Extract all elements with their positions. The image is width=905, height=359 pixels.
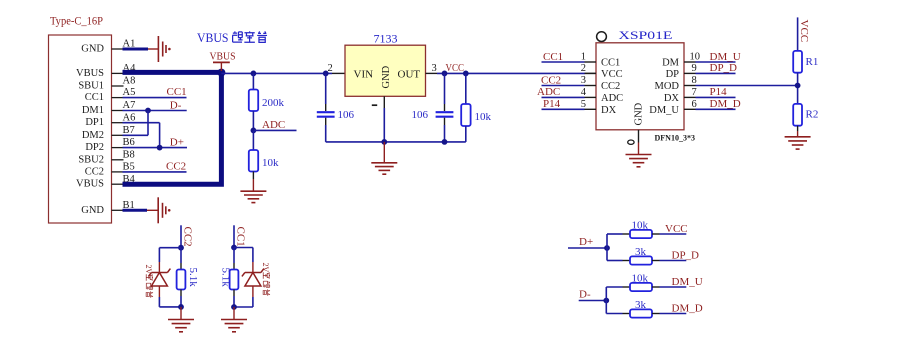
ground below CC1 bbox=[221, 320, 247, 332]
wire CC2 branch top bbox=[159, 247, 181, 249]
svg-text:P14: P14 bbox=[710, 86, 728, 98]
wire D- net: pin A7 junction to label bbox=[123, 110, 187, 112]
svg-text:5: 5 bbox=[581, 99, 586, 110]
svg-text:DM_U: DM_U bbox=[710, 51, 741, 63]
svg-text:3k: 3k bbox=[635, 299, 647, 311]
svg-text:D+: D+ bbox=[170, 136, 184, 148]
svg-text:D-: D- bbox=[579, 289, 591, 301]
svg-text:MOD: MOD bbox=[654, 81, 679, 92]
wire CC1 from A5 bbox=[123, 97, 187, 99]
wire D+ bbox=[568, 247, 607, 249]
wire D+ to 3k bbox=[607, 260, 630, 262]
wire VCC top right bbox=[797, 17, 799, 51]
svg-text:8: 8 bbox=[692, 75, 697, 86]
svg-text:7133: 7133 bbox=[374, 34, 398, 46]
pin 6 DM_U bbox=[649, 99, 697, 116]
pin GND B1 bbox=[81, 200, 135, 216]
svg-text:CC1: CC1 bbox=[167, 86, 187, 98]
junction VBUS/200k bbox=[251, 71, 257, 77]
wire CC2 branch bottom bbox=[159, 306, 181, 308]
pin 8 MOD bbox=[654, 75, 696, 92]
svg-text:CC1: CC1 bbox=[543, 51, 563, 63]
junction D+ bbox=[604, 245, 610, 251]
wire resistor R6 bottom bbox=[233, 290, 235, 308]
wire OUT to VCC rail bbox=[426, 72, 597, 74]
resistor 200k bbox=[249, 90, 258, 112]
junction CC2 bottom bbox=[178, 304, 184, 310]
svg-text:GND: GND bbox=[381, 65, 392, 88]
wire A1 to ground bbox=[148, 48, 158, 50]
junction CC1 bottom bbox=[231, 304, 237, 310]
wire CC2 from B5 bbox=[123, 171, 187, 173]
ground below XSP01E bbox=[626, 155, 652, 167]
wire B6 D+ bbox=[123, 147, 188, 149]
svg-text:DFN10_3*3: DFN10_3*3 bbox=[655, 134, 695, 143]
svg-text:DP_D: DP_D bbox=[710, 62, 738, 74]
zener D2 2V bbox=[148, 269, 170, 286]
wire CC1 branch bottom bbox=[234, 306, 253, 308]
svg-text:2V: 2V bbox=[261, 263, 270, 273]
capacitor C1 106 (input) bbox=[317, 112, 335, 117]
svg-text:GND: GND bbox=[81, 205, 104, 216]
junction on VBUS bus bbox=[217, 69, 225, 77]
pin 10 DM bbox=[662, 52, 700, 69]
svg-text:DP1: DP1 bbox=[85, 117, 104, 128]
svg-text:VCC: VCC bbox=[601, 69, 623, 80]
ground at A1 (rotated) bbox=[158, 36, 170, 62]
svg-text:SBU2: SBU2 bbox=[78, 154, 104, 165]
junction B6 D+ bbox=[157, 145, 163, 151]
svg-text:CC1: CC1 bbox=[601, 58, 620, 69]
resistor 10k (D+ pullup) bbox=[630, 230, 652, 238]
wire VBUS to 200k bbox=[252, 73, 254, 89]
junction output resistor bbox=[463, 71, 469, 77]
svg-text:VBUS: VBUS bbox=[210, 50, 236, 62]
svg-text:A7: A7 bbox=[123, 100, 136, 111]
pin 2 VCC bbox=[581, 63, 623, 80]
pin DP2 B6 bbox=[85, 137, 134, 153]
svg-text:106: 106 bbox=[338, 109, 355, 121]
wire P14 label pin5 bbox=[542, 108, 585, 110]
svg-text:DP2: DP2 bbox=[85, 142, 104, 153]
pin 7 DX bbox=[664, 87, 697, 104]
power port VBUS bbox=[210, 50, 236, 71]
svg-text:A6: A6 bbox=[123, 112, 136, 123]
wire 10k to ground bbox=[252, 172, 254, 180]
wire 200k to ADC node bbox=[252, 111, 254, 130]
wire zener D2 bottom bbox=[158, 286, 160, 307]
svg-text:200k: 200k bbox=[262, 97, 285, 109]
resistor R1 bbox=[793, 51, 802, 73]
wire ADC stub bbox=[253, 129, 296, 131]
svg-text:D+: D+ bbox=[579, 236, 593, 248]
pin CC1 A5 bbox=[85, 87, 136, 103]
junction D- bbox=[603, 298, 609, 304]
svg-text:B8: B8 bbox=[123, 149, 135, 160]
svg-text:GND: GND bbox=[81, 44, 104, 55]
wire thick GND B1 bbox=[123, 209, 148, 212]
svg-text:10k: 10k bbox=[262, 157, 279, 169]
svg-text:CC2: CC2 bbox=[541, 74, 561, 86]
chip U2 XSP01E bbox=[596, 30, 695, 142]
wire 3k to DP_D label bbox=[652, 260, 686, 262]
pin GND A1 bbox=[81, 39, 135, 55]
wire 3k to DM_D label bbox=[652, 313, 686, 315]
wire A6 to B6 vertical bbox=[159, 123, 161, 148]
wire 10k to DM_U label bbox=[652, 286, 686, 288]
wire CC1 branch top bbox=[234, 247, 253, 249]
svg-text:DX: DX bbox=[664, 93, 680, 104]
wire input cap to bottom rail bbox=[325, 118, 327, 142]
wire CC2 to ground bbox=[180, 307, 182, 320]
wire R1 to R2 bbox=[797, 73, 799, 104]
junction input cap bbox=[323, 71, 329, 77]
svg-text:GND: GND bbox=[634, 102, 645, 125]
resistor 5.1k (CC2) bbox=[177, 270, 186, 290]
pin 1 CC1 bbox=[581, 52, 621, 69]
junction MOD divider bbox=[795, 83, 801, 89]
svg-text:VBUS: VBUS bbox=[197, 31, 229, 45]
wire CC2 label pin3 bbox=[542, 85, 585, 87]
svg-text:3: 3 bbox=[432, 63, 437, 74]
note VBUS load text bbox=[197, 31, 267, 45]
resistor 3k (D+ series) bbox=[630, 256, 652, 264]
pin VBUS B4 bbox=[76, 174, 136, 190]
connector body bbox=[49, 35, 112, 223]
wire output cap to bottom rail bbox=[444, 118, 446, 142]
label 2V regulator (rotated) right bbox=[261, 263, 270, 296]
pin 0 GND stub below chip bbox=[628, 130, 639, 155]
svg-text:DM_D: DM_D bbox=[710, 98, 741, 110]
junction CC1 top bbox=[231, 245, 237, 251]
bottom rail wire bbox=[326, 141, 466, 143]
wire P14 label pin7 bbox=[696, 96, 736, 98]
svg-text:VCC: VCC bbox=[798, 20, 810, 43]
svg-text:DM_U: DM_U bbox=[649, 105, 679, 116]
svg-text:9: 9 bbox=[692, 63, 697, 74]
wire resistor R5 bottom bbox=[180, 290, 182, 307]
wire zener D1 bottom bbox=[252, 286, 254, 307]
svg-text:10k: 10k bbox=[632, 273, 649, 285]
pin VBUS A4 bbox=[76, 63, 136, 79]
junction A7 D- bbox=[145, 108, 151, 114]
svg-text:VIN: VIN bbox=[354, 69, 374, 81]
wire to input cap bbox=[325, 73, 327, 111]
svg-text:DM2: DM2 bbox=[82, 130, 104, 141]
svg-text:5.1k: 5.1k bbox=[187, 268, 199, 288]
wire B7 bbox=[123, 134, 149, 136]
pin 9 DP bbox=[666, 63, 697, 80]
wire zener D1 top bbox=[252, 248, 254, 273]
svg-text:ADC: ADC bbox=[537, 86, 560, 98]
wire D- bbox=[579, 300, 607, 302]
svg-text:CC2: CC2 bbox=[85, 166, 104, 177]
wire D- vertical bbox=[605, 287, 607, 314]
junction rail cap bbox=[442, 139, 448, 145]
wire CC2 stub down bbox=[180, 225, 182, 247]
svg-text:1: 1 bbox=[581, 52, 586, 63]
wire D- to 3k bbox=[606, 313, 630, 315]
regulator U1 7133 bbox=[345, 34, 426, 97]
resistor 10k (output) bbox=[461, 104, 470, 126]
svg-text:R1: R1 bbox=[806, 56, 819, 68]
svg-text:A8: A8 bbox=[123, 76, 136, 87]
svg-text:P14: P14 bbox=[543, 98, 561, 110]
wire DM_U label pin10 bbox=[696, 61, 736, 63]
wire CC1 label pin1 bbox=[542, 61, 585, 63]
resistor R2 bbox=[793, 104, 802, 126]
pin DP1 A6 bbox=[85, 112, 135, 128]
svg-text:CC2: CC2 bbox=[181, 227, 193, 247]
wire rail to ground bbox=[383, 142, 385, 163]
svg-text:10k: 10k bbox=[475, 111, 492, 123]
svg-text:B7: B7 bbox=[123, 125, 135, 136]
svg-text:10: 10 bbox=[690, 52, 701, 63]
svg-text:2: 2 bbox=[328, 63, 333, 74]
pin DM1 A7 bbox=[82, 100, 136, 116]
wire zener D2 top bbox=[158, 248, 160, 273]
svg-text:CC1: CC1 bbox=[234, 227, 246, 247]
svg-text:DX: DX bbox=[601, 105, 617, 116]
pin SBU1 A8 bbox=[78, 76, 135, 92]
pin 1 designator (rotated) bbox=[372, 104, 377, 106]
pin DM2 B7 bbox=[82, 125, 135, 141]
svg-text:XSP01E: XSP01E bbox=[619, 30, 673, 42]
svg-text:CC2: CC2 bbox=[166, 160, 186, 172]
svg-text:10k: 10k bbox=[632, 220, 649, 232]
wire VBUS rail to 7133 VIN bbox=[221, 72, 332, 74]
svg-text:DM_D: DM_D bbox=[672, 303, 703, 315]
wire output 10k to bottom rail bbox=[465, 126, 467, 142]
pin 3 CC2 bbox=[581, 75, 621, 92]
pin 4 ADC bbox=[581, 87, 623, 104]
svg-text:CC1: CC1 bbox=[85, 92, 104, 103]
pin SBU2 B8 bbox=[78, 149, 134, 165]
wire CC1 stub down bbox=[233, 225, 235, 247]
wire D+ vertical bbox=[606, 234, 608, 261]
resistor 3k (D- series) bbox=[630, 309, 652, 317]
resistor 10k (D- pullup) bbox=[630, 283, 652, 291]
ground below 7133 bbox=[371, 163, 397, 174]
wire ADC node to 10k bbox=[252, 130, 254, 150]
bus VBUS thick A4-B4 bbox=[123, 72, 222, 184]
label 2V regulator (rotated) left bbox=[144, 265, 153, 298]
pin GND stub of 7133 bbox=[383, 96, 385, 142]
wire to output cap bbox=[444, 73, 446, 111]
svg-text:DP: DP bbox=[666, 69, 680, 80]
svg-text:6: 6 bbox=[692, 99, 697, 110]
svg-text:VCC: VCC bbox=[446, 62, 465, 74]
svg-text:SBU1: SBU1 bbox=[78, 81, 104, 92]
svg-text:B6: B6 bbox=[123, 137, 135, 148]
svg-text:VCC: VCC bbox=[665, 223, 688, 235]
svg-text:VBUS: VBUS bbox=[76, 179, 104, 190]
zener D1 2V bbox=[242, 269, 264, 286]
wire D+ to 10k bbox=[607, 233, 630, 235]
svg-text:106: 106 bbox=[412, 109, 429, 121]
svg-text:VBUS: VBUS bbox=[76, 68, 104, 79]
svg-text:7: 7 bbox=[692, 87, 697, 98]
ground below ADC divider bbox=[240, 191, 266, 202]
pin 5 DX bbox=[581, 99, 617, 116]
wire thick GND A1 bbox=[123, 48, 149, 51]
svg-text:A5: A5 bbox=[123, 87, 136, 98]
wire resistor R5 top bbox=[180, 248, 182, 270]
junction ADC bbox=[251, 127, 257, 133]
wire resistor R6 top bbox=[233, 248, 235, 270]
resistor 5.1k (CC1) bbox=[230, 270, 239, 290]
svg-text:2V: 2V bbox=[144, 265, 153, 275]
svg-text:ADC: ADC bbox=[262, 119, 285, 131]
ground at B1 (rotated) bbox=[158, 197, 170, 223]
wire pin8 MOD to divider bbox=[696, 85, 798, 87]
wire A7 to B7 vertical bbox=[147, 111, 149, 136]
junction output cap bbox=[442, 71, 448, 77]
junction CC2 top bbox=[178, 245, 184, 251]
svg-text:B5: B5 bbox=[123, 162, 135, 173]
svg-text:DM: DM bbox=[662, 58, 680, 69]
svg-text:OUT: OUT bbox=[398, 69, 421, 81]
wire CC1 to ground bbox=[233, 307, 235, 320]
wire DM_D label pin6 bbox=[696, 108, 736, 110]
wire 10k to VCC label bbox=[652, 233, 686, 235]
svg-text:DM_U: DM_U bbox=[672, 276, 703, 288]
svg-text:5.1k: 5.1k bbox=[220, 268, 232, 288]
ground below R2 bbox=[785, 137, 811, 149]
svg-text:R2: R2 bbox=[806, 109, 819, 121]
svg-text:3k: 3k bbox=[635, 246, 647, 258]
svg-text:ADC: ADC bbox=[601, 93, 623, 104]
pin CC2 B5 bbox=[85, 162, 135, 178]
capacitor C2 106 (output) bbox=[436, 112, 454, 117]
wire to output resistor 10k bbox=[465, 73, 467, 104]
resistor 10k (ADC divider) bbox=[249, 150, 258, 172]
svg-text:3: 3 bbox=[581, 75, 586, 86]
connector J1 Type-C_16P bbox=[49, 16, 137, 224]
svg-text:D-: D- bbox=[170, 99, 182, 111]
wire A6 bbox=[123, 122, 160, 124]
svg-text:DP_D: DP_D bbox=[672, 250, 700, 262]
wire B1 to ground bbox=[147, 209, 158, 211]
svg-text:2: 2 bbox=[581, 63, 586, 74]
junction rail GND bbox=[381, 139, 387, 145]
ground below CC2 bbox=[168, 320, 194, 332]
wire ADC label pin4 bbox=[542, 96, 585, 98]
svg-text:CC2: CC2 bbox=[601, 81, 620, 92]
svg-text:Type-C_16P: Type-C_16P bbox=[50, 16, 103, 28]
svg-text:DM1: DM1 bbox=[82, 105, 104, 116]
wire D- to 10k bbox=[606, 286, 630, 288]
svg-text:4: 4 bbox=[581, 87, 587, 98]
wire R2 to ground bbox=[797, 126, 799, 137]
wire DP_D label pin9 bbox=[696, 72, 736, 74]
